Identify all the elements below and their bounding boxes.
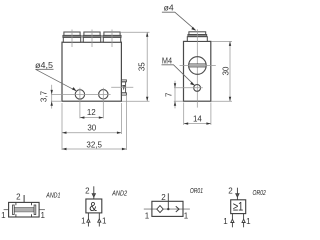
M4 hole centerline (174, 87, 203, 89)
fitting F1 base (63, 37, 80, 42)
svg-text:2: 2 (228, 187, 233, 196)
svg-text:3,7: 3,7 (40, 90, 49, 102)
dimension 35 (120, 32, 149, 101)
fitting F1 band (63, 35, 81, 37)
screw head circle (189, 57, 207, 75)
fitting F2 base (83, 37, 100, 42)
svg-text:OR02: OR02 (253, 190, 266, 197)
hole left Ø4,5 (75, 90, 84, 99)
fitting F3 centerline (111, 30, 113, 48)
side view main centerline (196, 29, 198, 107)
hole right Ø4,5 (99, 90, 108, 99)
svg-text:1: 1 (81, 216, 86, 225)
OR02 input line left (231, 214, 233, 228)
fitting F3 band (103, 35, 121, 37)
dimension 3,7 (40, 85, 62, 109)
OR02 port 2 line (236, 188, 238, 200)
svg-text:ø4: ø4 (164, 4, 175, 13)
screw head horizontal centerline (180, 65, 216, 67)
svg-text:1: 1 (223, 217, 228, 226)
screw head slot fill (189, 64, 206, 67)
dimension 7 (164, 81, 183, 109)
front view body (62, 42, 121, 101)
svg-text:1: 1 (102, 216, 107, 225)
svg-text:ø4,5: ø4,5 (35, 61, 54, 70)
svg-text:2: 2 (16, 193, 21, 202)
svg-text:14: 14 (193, 115, 202, 124)
AND1 left port stub (4, 209, 9, 211)
OR01 junction dot (167, 208, 169, 210)
AND1 piston right plate (34, 205, 36, 215)
OR02 input triangle right (242, 219, 245, 222)
fitting F3 base (103, 37, 120, 42)
OR01 chevron (176, 206, 179, 212)
side view fitting cap (189, 32, 206, 35)
AND2 input line left (87, 213, 89, 227)
svg-text:2: 2 (85, 187, 90, 196)
OR02 box (231, 200, 246, 214)
AND1 symbol (1, 193, 60, 220)
side view body (184, 41, 211, 101)
svg-text:32,5: 32,5 (86, 140, 102, 149)
AND1 box (9, 202, 39, 217)
side port centerline (111, 86, 133, 88)
OR02 input triangle left (231, 219, 234, 222)
AND1 port 2 line (23, 195, 25, 202)
dimension 14 (184, 103, 211, 125)
AND1 right port stub (39, 209, 45, 211)
svg-text:OR01: OR01 (190, 188, 203, 195)
leader Ø4 (162, 4, 196, 31)
fitting F2 cap (84, 32, 100, 35)
svg-text:35: 35 (138, 62, 147, 71)
side port protrusion (121, 80, 126, 95)
leader Ø4,5 (35, 61, 77, 91)
fitting F3 cap (104, 32, 120, 35)
svg-text:&: & (89, 199, 97, 214)
AND2 input triangle left (87, 219, 90, 222)
svg-text:12: 12 (87, 108, 96, 117)
svg-text:1: 1 (184, 212, 189, 221)
fitting F2 centerline (91, 30, 93, 48)
OR01 box (152, 201, 183, 216)
AND1 seat ticks (16, 202, 32, 217)
AND2 port 2 line (93, 186, 95, 199)
svg-text:AND2: AND2 (111, 191, 127, 198)
svg-text:1: 1 (145, 212, 150, 221)
AND2 port 2 triangle (92, 194, 95, 198)
M4 hole (194, 85, 201, 92)
holes horizontal centerline (51, 93, 111, 95)
side view fitting base (187, 37, 207, 42)
OR01 port 2 line (167, 193, 169, 209)
hole left vertical centerline (79, 88, 81, 119)
leader M4 (162, 56, 195, 85)
AND1 piston gray bar (14, 207, 34, 212)
dimension 32,5 (62, 96, 126, 150)
svg-text:30: 30 (87, 124, 96, 133)
fitting F1 centerline (71, 30, 73, 48)
fitting F1 cap (64, 32, 80, 35)
hole right vertical centerline (102, 88, 104, 119)
svg-text:AND1: AND1 (46, 193, 61, 200)
OR02 symbol (223, 187, 266, 228)
AND2 input line right (98, 213, 100, 227)
svg-text:7: 7 (164, 92, 173, 97)
fitting F2 band (83, 35, 101, 37)
OR02 input line right (243, 214, 245, 228)
OR01 symbol (144, 188, 203, 220)
dimension 30 side (211, 41, 232, 101)
svg-text:1: 1 (1, 211, 6, 220)
svg-text:1: 1 (246, 217, 251, 226)
svg-text:1: 1 (40, 211, 45, 220)
AND2 symbol (81, 186, 127, 226)
dimension 30 front (62, 103, 121, 150)
OR01 diamond (157, 206, 163, 213)
OR01 through line (144, 208, 190, 210)
dimension 12 (80, 108, 103, 119)
side view fitting band (188, 35, 207, 37)
AND2 input triangle right (98, 219, 101, 222)
AND1 piston left plate (13, 205, 15, 215)
AND2 box (86, 199, 102, 213)
svg-text:2: 2 (161, 193, 166, 202)
svg-text:≥1: ≥1 (233, 200, 244, 214)
svg-text:30: 30 (221, 66, 230, 75)
screw slot lines (189, 63, 206, 65)
svg-text:M4: M4 (162, 56, 173, 65)
OR02 port 2 triangle (236, 194, 239, 198)
